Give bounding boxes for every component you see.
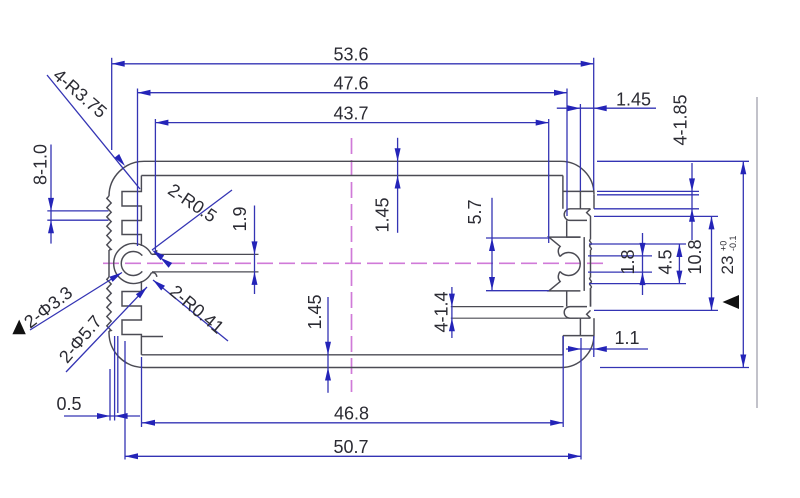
svg-text:23: 23 bbox=[718, 256, 737, 275]
ext 23 bottom bbox=[600, 367, 749, 369]
right boss inner circle bbox=[560, 253, 580, 276]
centerline horizontal bbox=[103, 262, 604, 264]
ext 43.7 right bbox=[548, 119, 550, 243]
leader 2-phi5.7 bbox=[66, 287, 147, 372]
ext 5.7 top bbox=[486, 237, 549, 239]
profile inner bottom surface bbox=[141, 354, 563, 356]
svg-text:53.6: 53.6 bbox=[333, 45, 368, 65]
ext 1.1 right bbox=[593, 336, 595, 357]
profile left outer wall bottom arc bbox=[109, 331, 144, 368]
ext 23 top bbox=[597, 160, 749, 162]
svg-text:1.8: 1.8 bbox=[618, 249, 638, 274]
centerline vertical bbox=[351, 138, 353, 392]
ext 4.5 top bbox=[589, 243, 686, 245]
left comb lower teeth bbox=[122, 281, 141, 355]
ext 46.8 left bbox=[141, 357, 143, 427]
right boss bottom claw bbox=[549, 272, 581, 291]
profile top outer edge bbox=[144, 161, 594, 194]
svg-text:0.5: 0.5 bbox=[56, 394, 81, 414]
right slot upper bbox=[564, 209, 590, 221]
ext slot lower left b bbox=[451, 317, 578, 319]
ext 5.7 bottom bbox=[486, 290, 549, 292]
svg-text:4.5: 4.5 bbox=[655, 249, 675, 274]
ext 1.9 top bbox=[152, 253, 259, 255]
dimension 1.8 bbox=[642, 233, 644, 295]
right wall step lower bbox=[563, 318, 594, 355]
right wall step upper bbox=[563, 176, 594, 209]
svg-text:5.7: 5.7 bbox=[465, 199, 485, 224]
ext 0.5 b bbox=[114, 336, 116, 421]
svg-text:43.7: 43.7 bbox=[333, 104, 368, 124]
dimension 1.45 bbox=[397, 138, 399, 233]
dimension 1.9 bbox=[254, 206, 256, 295]
dimension 23 with tolerance bbox=[742, 161, 744, 367]
leader 4-R3.75 bbox=[47, 75, 140, 189]
ext 8-1.0 top bbox=[47, 210, 108, 212]
right slot lower bbox=[564, 307, 590, 319]
left inner bottom shelf bbox=[141, 336, 163, 338]
left boss inner arc bbox=[121, 252, 142, 276]
dimension 53.6 bbox=[112, 63, 594, 65]
ext 4-1.85 bottom bbox=[594, 208, 699, 210]
dimension 4-1.4 bbox=[451, 287, 453, 338]
ext 10.8 bottom bbox=[594, 309, 718, 311]
ext 1.45 right a bbox=[579, 104, 581, 191]
datum triangle right bbox=[723, 295, 740, 309]
dimension 43.7 bbox=[155, 122, 548, 124]
svg-text:50.7: 50.7 bbox=[333, 437, 368, 457]
ext 47.6 right bbox=[566, 89, 568, 217]
left boss outer arc bbox=[114, 243, 152, 283]
dimension 8-1.0 bbox=[50, 145, 52, 244]
dimension 47.6 bbox=[138, 92, 568, 94]
svg-text:47.6: 47.6 bbox=[333, 74, 368, 94]
right slot upper mouth bbox=[587, 209, 591, 240]
sheet border right bbox=[756, 97, 758, 408]
profile left wall mid bbox=[108, 250, 110, 277]
svg-text:-0.1: -0.1 bbox=[728, 235, 738, 251]
svg-text:1.9: 1.9 bbox=[230, 206, 250, 231]
svg-text:1.45: 1.45 bbox=[305, 294, 325, 329]
ext serration c bbox=[117, 336, 119, 413]
ext 47.6 left bbox=[137, 89, 139, 247]
svg-text:1.45: 1.45 bbox=[616, 90, 651, 110]
profile inner top surface bbox=[141, 175, 563, 177]
dimension 4.5 bbox=[678, 244, 680, 284]
right boss stem bbox=[583, 237, 585, 291]
ext 1.9 bottom bbox=[152, 271, 259, 273]
ext 50.7 right bbox=[580, 338, 582, 460]
dimension 1.45 bbox=[327, 297, 329, 393]
left comb upper teeth bbox=[122, 176, 141, 247]
ext 8-1.0 bottom bbox=[47, 219, 108, 221]
right wall recess lower bbox=[566, 291, 568, 307]
right slot lower mouth bbox=[587, 288, 591, 318]
profile bottom outer edge bbox=[144, 335, 594, 368]
svg-text:46.8: 46.8 bbox=[334, 403, 369, 423]
ext 53.6 left bbox=[111, 58, 113, 150]
ext 1.8 top bbox=[588, 255, 652, 257]
dimension 5.7 bbox=[491, 198, 493, 290]
leader 2-R0.41 bbox=[153, 280, 228, 341]
dimension 46.8 bbox=[142, 422, 563, 424]
profile left wall serration upper bbox=[107, 196, 111, 250]
right boss top claw bbox=[549, 237, 581, 256]
leader 2-phi3.3 bbox=[30, 273, 122, 331]
right wall serration lower bbox=[590, 278, 592, 307]
right wall recess upper bbox=[567, 220, 581, 237]
right outer wall lower bbox=[593, 318, 595, 334]
leader 2-R0.5 bbox=[152, 190, 232, 250]
ext 50.7 left bbox=[124, 341, 126, 460]
ext 0.5 a bbox=[109, 369, 111, 421]
ext 4-1.85 top bbox=[597, 190, 699, 192]
svg-text:4-1.85: 4-1.85 bbox=[671, 94, 691, 145]
ext 43.7 left bbox=[154, 119, 156, 252]
dimension 10.8 bbox=[711, 216, 713, 310]
right outer wall upper bbox=[593, 194, 595, 209]
dimension 4-1.85 bbox=[691, 163, 693, 240]
right wall serration upper bbox=[590, 239, 592, 277]
dimension 1.45 right bbox=[557, 107, 656, 109]
svg-text:+0: +0 bbox=[719, 241, 729, 251]
ext 4.5 bottom bbox=[589, 283, 686, 285]
ext 1.8 bottom bbox=[588, 271, 652, 273]
ext corner arc end bbox=[597, 194, 699, 196]
left boss lip curls bbox=[151, 250, 157, 277]
svg-text:1.1: 1.1 bbox=[614, 328, 639, 348]
svg-text:4-1.4: 4-1.4 bbox=[431, 291, 451, 332]
ext slot lower left a bbox=[451, 306, 564, 308]
ext 10.8 top bbox=[594, 215, 718, 217]
ext 46.8 right bbox=[562, 336, 564, 427]
svg-text:10.8: 10.8 bbox=[685, 239, 705, 274]
dimension 1.1 bbox=[566, 348, 648, 350]
svg-text:8-1.0: 8-1.0 bbox=[31, 144, 51, 185]
profile left wall serration lower bbox=[107, 277, 111, 331]
ext 53.6 right bbox=[593, 58, 595, 190]
dimension 0.5 bbox=[64, 415, 140, 417]
profile left outer wall top arc bbox=[109, 161, 144, 196]
dimension 50.7 bbox=[125, 455, 581, 457]
svg-text:1.45: 1.45 bbox=[373, 197, 393, 232]
